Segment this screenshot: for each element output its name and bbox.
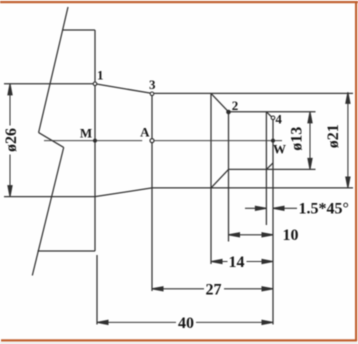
phi21 bottom edge and extension [152,187,353,189]
taper bottom phi21-phi13 [211,169,229,188]
svg-text:ø21: ø21 [325,124,342,148]
border frame bottom [1,339,357,341]
node 3 [150,92,154,96]
dimension 27 [152,287,273,291]
svg-text:27: 27 [206,281,222,298]
chamfer bottom 1.5x45 [266,163,273,170]
taper top phi26-phi21 [95,84,152,94]
phi26 top extension line [4,83,95,85]
svg-text:M: M [80,126,92,141]
dimension 40 [97,320,273,324]
taper bottom phi26-phi21 [95,188,152,197]
chamfer top 1.5x45 [266,112,273,119]
phi13 bottom edge and extension [229,168,316,170]
dimension phi21 [346,92,350,188]
centerline axis [44,140,142,142]
phi21 top edge and extension [152,92,353,94]
jaw middle slant [39,133,64,148]
jaw bottom step edge [38,250,96,252]
extension line x211 for 14-dim [210,93,212,264]
node A [150,139,154,143]
svg-text:ø26: ø26 [3,128,20,152]
svg-text:10: 10 [283,227,299,244]
jaw upper slant [39,7,68,133]
node 2 [227,110,231,114]
node 1 [93,82,97,86]
bottom gray strip [0,342,358,344]
phi13 top edge and extension [229,111,316,113]
svg-text:1: 1 [97,68,104,83]
extension line x152 for 27-dim [151,93,153,291]
svg-text:A: A [140,125,150,140]
extension line x228.5 for 10-dim [228,112,230,242]
svg-text:1.5*45°: 1.5*45° [299,201,349,218]
svg-text:4: 4 [275,111,282,126]
svg-text:3: 3 [149,77,156,92]
border frame top [0,1,358,3]
extension line x97 for 40-dim [96,255,98,325]
node 4 [271,116,275,120]
dimension phi13 [308,112,312,170]
node W [271,139,275,143]
svg-text:14: 14 [229,254,245,271]
jaw lower slant [32,147,63,275]
taper top phi21-phi13 [211,93,229,111]
svg-text:ø13: ø13 [289,127,306,151]
part left face [94,30,96,251]
dimension 1.5x45 arrows [245,206,297,210]
svg-text:W: W [273,141,286,156]
extension line x266.4 for chamfer dim [265,112,267,225]
svg-text:2: 2 [232,98,239,113]
svg-text:40: 40 [178,315,194,332]
dimension 10 [229,233,274,237]
jaw top edge [62,29,95,31]
end face and 40-dim right extension [272,118,274,324]
dimension phi26 [8,84,12,197]
node M [93,139,97,143]
border frame right [355,1,357,341]
dimension 14 [211,259,273,263]
phi26 bottom extension line [4,196,95,198]
